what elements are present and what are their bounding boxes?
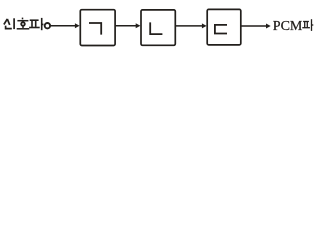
block B3 [207, 9, 241, 45]
glyph ㄴ in B2 [150, 22, 162, 34]
label 신호파 : glyph 신 [4, 18, 14, 29]
glyph ㄱ in B1 [89, 23, 101, 35]
wire W2 [116, 25, 137, 27]
glyph ㄷ in B3 [215, 25, 227, 34]
block B1 [80, 10, 115, 46]
label 신호파 : glyph 호 [17, 18, 30, 29]
wire W3 [176, 25, 203, 27]
wire W4 [241, 25, 267, 27]
input terminal (open circle) [45, 23, 50, 28]
arrowhead A3 [202, 23, 207, 28]
label PCM파 : glyph 파 [302, 19, 313, 31]
block B2 [141, 10, 175, 45]
wire W1 [51, 25, 76, 27]
arrowhead A2 [136, 23, 141, 28]
arrowhead A4 [266, 24, 271, 29]
arrowhead A1 [75, 23, 80, 28]
svg-text:PCM: PCM [273, 19, 303, 34]
label 신호파 : glyph 파 [29, 18, 43, 30]
